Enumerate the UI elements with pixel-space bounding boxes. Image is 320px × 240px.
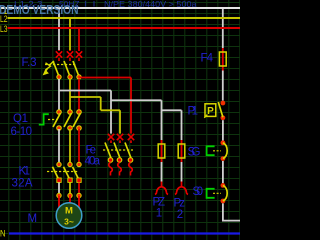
svg-text:40a: 40a xyxy=(85,156,101,168)
svg-text:2: 2 xyxy=(177,209,183,221)
svg-text:M: M xyxy=(28,213,38,225)
svg-text:S0: S0 xyxy=(193,186,204,198)
svg-text:Pz: Pz xyxy=(174,198,186,210)
svg-text:32A: 32A xyxy=(12,178,33,190)
svg-text:6-10: 6-10 xyxy=(11,126,33,138)
svg-text:N: N xyxy=(0,228,6,239)
svg-text:Q1: Q1 xyxy=(13,113,28,125)
svg-text:M: M xyxy=(65,206,73,217)
svg-text:SG: SG xyxy=(188,147,201,159)
svg-text:P1: P1 xyxy=(188,106,199,118)
svg-text:1: 1 xyxy=(156,208,162,220)
svg-text:F.3: F.3 xyxy=(22,57,37,69)
svg-text:F4: F4 xyxy=(201,53,214,65)
svg-text:3~: 3~ xyxy=(64,217,74,227)
svg-text:L3: L3 xyxy=(0,24,8,35)
svg-text:N/PE 380/440V > 500a: N/PE 380/440V > 500a xyxy=(104,0,197,9)
svg-text:P: P xyxy=(207,106,214,117)
svg-text:DEMO VERSION: DEMO VERSION xyxy=(0,3,79,17)
svg-text:Fe: Fe xyxy=(86,144,97,156)
svg-text:K1: K1 xyxy=(19,166,31,178)
